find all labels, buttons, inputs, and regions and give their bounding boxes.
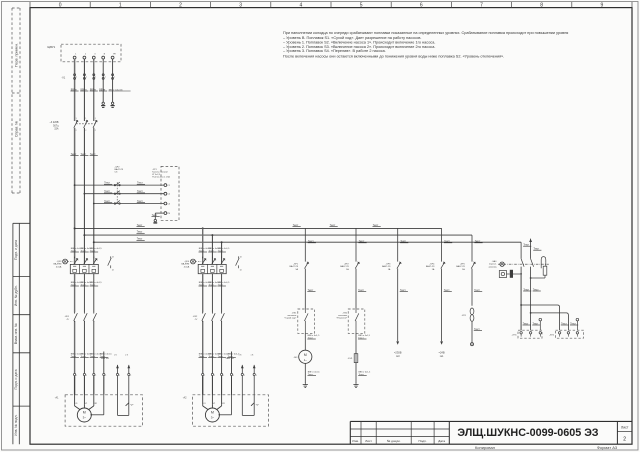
svg-text:М: М (211, 411, 214, 415)
svg-text:-SA1: -SA1 (492, 260, 498, 263)
svg-text:1: 1 (130, 375, 131, 377)
svg-text:13: 13 (112, 256, 114, 258)
svg-text:-А2: -А2 (183, 396, 187, 399)
svg-text:-А1: -А1 (55, 396, 59, 399)
svg-text:9: 9 (601, 3, 604, 9)
svg-text:Подп.: Подп. (418, 439, 426, 443)
wire + tag (471, 321, 473, 342)
svg-text:-QF3: -QF3 (56, 261, 62, 263)
svg-text:Изм.: Изм. (352, 439, 359, 443)
svg-text:8: 8 (540, 3, 543, 9)
bus L3 (94, 241, 521, 243)
left margin: Перв. примен. / Справ. № dashed column (11, 8, 13, 193)
svg-text:-ХП2: -ХП2 (549, 334, 555, 336)
terminal circle (471, 343, 474, 346)
wire: three phases continue down (74, 128, 76, 264)
fuse FU1 (354, 354, 358, 363)
svg-text:"У": "У" (130, 404, 133, 407)
wire: pair down to well connectors (520, 274, 522, 330)
float switch ПК1 (dashed box) (298, 309, 315, 333)
svg-text:≈24В: ≈24В (439, 350, 445, 354)
svg-text:4,5кА: 4,5кА (56, 265, 62, 268)
cable gland connector row (73, 373, 76, 376)
svg-text:ВА47-29: ВА47-29 (340, 265, 349, 268)
svg-text:4,5кА: 4,5кА (184, 265, 190, 268)
coil K1 (543, 266, 547, 275)
motor M1 (77, 408, 91, 422)
svg-text:U1: U1 (75, 403, 77, 405)
svg-text:1: 1 (223, 375, 224, 377)
fan motor M3 (299, 350, 312, 363)
wire + tag (355, 363, 357, 383)
svg-text:Взам. инв. №: Взам. инв. № (14, 323, 18, 344)
wire: into well enclosure (202, 376, 204, 405)
svg-text:14: 14 (240, 270, 242, 272)
svg-text:Лист: Лист (365, 439, 372, 443)
control circuit 4: fuse SF4 (441, 228, 443, 261)
svg-text:1: 1 (233, 375, 234, 377)
wire + tag (304, 333, 306, 350)
wire: phases to motor (74, 274, 76, 395)
svg-text:1: 1 (85, 118, 86, 120)
svg-text:Копировал: Копировал (475, 445, 496, 450)
svg-text:Формат А3: Формат А3 (597, 445, 618, 450)
svg-text:1: 1 (119, 375, 120, 377)
svg-text:V1: V1 (213, 403, 215, 405)
svg-text:1: 1 (76, 375, 77, 377)
svg-text:U1: U1 (203, 403, 205, 405)
svg-text:2: 2 (95, 130, 96, 132)
control circuit 1: fuse SF1 (304, 228, 306, 261)
svg-text:13: 13 (240, 256, 242, 258)
wire: phases to motor (202, 274, 204, 395)
svg-text:ВА47-29: ВА47-29 (456, 265, 465, 268)
connector (filled) (510, 270, 513, 278)
svg-text:ВА47-29: ВА47-29 (382, 265, 391, 268)
svg-text:С1: С1 (168, 185, 170, 187)
svg-text:3: 3 (94, 54, 95, 56)
svg-text:режима: режима (489, 266, 498, 268)
ground (control 1) (304, 383, 306, 385)
svg-text:Дата: Дата (438, 439, 445, 443)
svg-text:2: 2 (85, 130, 86, 132)
svg-text:4: 4 (300, 3, 303, 9)
svg-text:-SF3: -SF3 (386, 263, 392, 265)
wire: PE conductor (103, 352, 105, 395)
svg-text:7: 7 (480, 3, 483, 9)
svg-text:1: 1 (204, 375, 205, 377)
bus L2 (84, 234, 472, 236)
svg-text:"У": "У" (256, 404, 259, 407)
svg-text:-SF1: -SF1 (293, 263, 299, 265)
svg-text:После включения насосы они ост: После включения насосы они остаются вклю… (283, 55, 504, 59)
title block (350, 420, 632, 422)
shield pigtails (539, 318, 542, 321)
PE/N termination on feeder 4 (102, 102, 104, 104)
svg-text:1: 1 (76, 77, 77, 79)
wire: XP1 PE pigtail to ground (155, 212, 164, 214)
svg-text:32А: 32А (54, 128, 59, 131)
svg-text:С3: С3 (168, 203, 170, 205)
ground (control 2) (355, 383, 357, 385)
svg-text:КВВГ 4х1: КВВГ 4х1 (226, 358, 234, 360)
wire: taps to socket XP1 (74, 184, 76, 186)
svg-text:Перв. примен.: Перв. примен. (14, 43, 18, 67)
svg-text:ЭЛЩ.ШУКНС-0099-0605 ЭЗ: ЭЛЩ.ШУКНС-0099-0605 ЭЗ (457, 427, 598, 439)
svg-text:1: 1 (95, 375, 96, 377)
svg-text:3~: 3~ (211, 416, 215, 420)
control circuit 3: fuse SF3 (397, 228, 399, 261)
svg-text:-SF4: -SF4 (430, 263, 436, 265)
svg-text:2: 2 (85, 54, 86, 56)
svg-text:№ докум.: № докум. (387, 439, 401, 443)
svg-text:«Перелив»: «Перелив» (336, 318, 348, 320)
svg-text:1: 1 (75, 54, 76, 56)
wire (471, 269, 473, 306)
socket XP1 (dashed box) (161, 166, 179, 220)
svg-text:перекл.: перекл. (489, 264, 497, 266)
svg-text:W1: W1 (95, 403, 98, 405)
svg-text:-SF2: -SF2 (344, 263, 350, 265)
svg-text:1: 1 (76, 118, 77, 120)
svg-text:1~: 1~ (304, 358, 308, 362)
PE/N termination on feeder 5 (111, 102, 113, 104)
cable gland connector row (201, 373, 204, 376)
sheet reference arrow ≈24В (440, 341, 443, 344)
svg-text:-КЛ1: -КЛ1 (461, 315, 466, 317)
svg-text:Лист: Лист (621, 425, 629, 429)
connector ХП1 (dashed) (518, 330, 542, 338)
svg-text:ВА47-29: ВА47-29 (426, 265, 435, 268)
bus L1 (75, 227, 442, 229)
aux contact of -QF3 (110, 256, 112, 258)
svg-text:0: 0 (59, 3, 62, 9)
svg-text:1: 1 (256, 375, 257, 377)
svg-text:– Уровень 1. Поплавок S2. «Вкл: – Уровень 1. Поплавок S2. «Включение нас… (283, 40, 435, 44)
svg-text:КВВГ 4х1: КВВГ 4х1 (101, 358, 109, 360)
float switch loop 2 (251, 403, 254, 406)
top coordinate strip (29, 2, 31, 8)
control circuit 2: fuse SF2 (355, 228, 357, 261)
svg-text:3~: 3~ (83, 416, 87, 420)
svg-text:«Сухой ход»: «Сухой ход» (284, 317, 297, 320)
float switch ПК2 (dashed box) (348, 309, 365, 333)
svg-text:1: 1 (214, 375, 215, 377)
svg-text:ВА47-29: ВА47-29 (290, 265, 299, 268)
svg-text:– Уровень В. Поплавок S1. «Сух: – Уровень В. Поплавок S1. «Сухой ход». Д… (283, 36, 421, 40)
svg-text:1: 1 (86, 77, 87, 79)
svg-text:-КК1: -КК1 (65, 316, 70, 318)
wire (355, 269, 357, 309)
svg-text:Справ. №: Справ. № (14, 121, 18, 137)
svg-text:-КК2: -КК2 (193, 316, 198, 318)
svg-text:2: 2 (76, 130, 77, 132)
connector ХП2 (dashed) (556, 330, 584, 338)
svg-text:W1: W1 (222, 403, 225, 405)
wire: PE conductor (231, 352, 233, 395)
svg-text:1: 1 (95, 77, 96, 79)
svg-text:Инв. № дубл.: Инв. № дубл. (14, 285, 18, 306)
svg-text:-SF5: -SF5 (460, 263, 466, 265)
wire + tag (304, 363, 306, 383)
svg-text:1: 1 (114, 77, 115, 79)
control circuit 5: fuse SF5 (471, 235, 473, 262)
terminals XT: L1 L2 L3 N PE (73, 56, 76, 59)
svg-text:/1/: /1/ (67, 319, 70, 321)
svg-text:Подп. и дата: Подп. и дата (14, 240, 18, 260)
svg-text:/1/: /1/ (195, 319, 198, 321)
left margin: inventory boxes column (12, 223, 14, 444)
svg-text:-Х1: -Х1 (61, 77, 65, 80)
motor M2 (205, 408, 219, 422)
svg-text:Подп. и дата: Подп. и дата (14, 369, 18, 389)
svg-text:-QF4: -QF4 (184, 261, 190, 263)
svg-text:1: 1 (95, 118, 96, 120)
svg-text:5: 5 (360, 3, 363, 9)
wire: bus L3 into selector + N arrow feed (520, 242, 522, 259)
aux contact of -QF4 (238, 256, 240, 258)
svg-text:– Уровень 3. Поплавок S4. «Пер: – Уровень 3. Поплавок S4. «Перелив». В р… (283, 49, 386, 53)
svg-text:ЩВУ1: ЩВУ1 (48, 45, 56, 49)
svg-text:При наполнении колодца по очер: При наполнении колодца по очереди срабат… (283, 31, 568, 35)
svg-text:М: М (304, 353, 307, 357)
sheet reference arrow ≈230В (396, 341, 399, 344)
svg-text:-ХП1: -ХП1 (512, 334, 518, 336)
svg-text:2: 2 (179, 3, 182, 9)
svg-text:С2: С2 (168, 194, 170, 196)
svg-text:14: 14 (112, 270, 114, 272)
svg-text:3: 3 (239, 3, 242, 9)
svg-text:1: 1 (244, 375, 245, 377)
float switch loop 1 (126, 403, 129, 406)
svg-text:ВА-99М: ВА-99М (53, 263, 61, 266)
svg-text:1: 1 (105, 77, 106, 79)
well enclosure 1 (dashed) (65, 395, 142, 426)
wire (304, 269, 306, 309)
wire to output arrow (397, 269, 399, 342)
svg-text:≈230В: ≈230В (394, 350, 402, 354)
wire: branch 2 drops from buses (202, 227, 204, 229)
svg-text:1: 1 (119, 3, 122, 9)
svg-text:– Уровень 2. Поплавок S3. «Вкл: – Уровень 2. Поплавок S3. «Включение нас… (283, 45, 435, 49)
svg-text:2: 2 (623, 437, 626, 443)
wire: into well enclosure (74, 376, 76, 405)
svg-text:-FU1: -FU1 (348, 358, 354, 360)
svg-text:1: 1 (105, 375, 106, 377)
well enclosure 2 (dashed) (193, 395, 269, 426)
wire: five feeders drop from terminals (74, 59, 76, 121)
svg-text:Инв. № подл.: Инв. № подл. (14, 415, 18, 436)
terminal box ЩВУ1 (dashed) (61, 44, 121, 62)
svg-text:6: 6 (420, 3, 423, 9)
indicator lamp HL1 (499, 271, 506, 278)
relay KL1 (470, 308, 474, 315)
wire + tag (355, 333, 357, 354)
svg-text:V1: V1 (85, 403, 87, 405)
svg-text:1: 1 (86, 375, 87, 377)
wire to output arrow (441, 269, 443, 342)
svg-text:М: М (83, 411, 86, 415)
svg-text:ВА-99М: ВА-99М (181, 263, 189, 266)
